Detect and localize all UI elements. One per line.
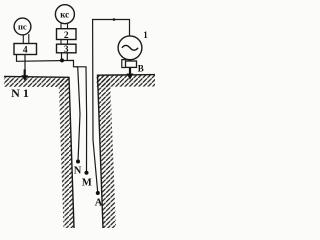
svg-text:A: A	[95, 197, 103, 208]
svg-text:В: В	[138, 64, 144, 74]
svg-text:1: 1	[143, 30, 148, 40]
svg-text:2: 2	[64, 31, 69, 41]
svg-text:пс: пс	[18, 22, 27, 32]
svg-text:N: N	[74, 165, 82, 176]
svg-text:M: M	[82, 177, 92, 188]
svg-text:N 1: N 1	[11, 86, 29, 100]
svg-text:4: 4	[23, 46, 28, 56]
svg-text:3: 3	[64, 44, 69, 54]
svg-text:кс: кс	[60, 10, 69, 20]
